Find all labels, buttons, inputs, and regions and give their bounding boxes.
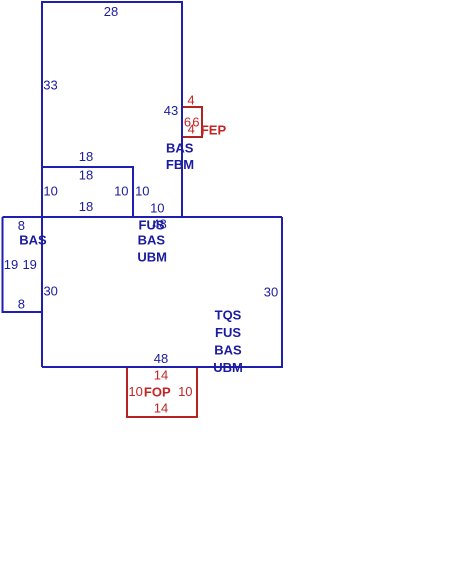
svg-text:48: 48 — [154, 351, 168, 366]
dimension 18 middle area bottom — [79, 199, 93, 214]
label FEP — [201, 122, 227, 137]
dimension 10 middle area left — [43, 184, 57, 199]
svg-text:FUS: FUS — [139, 217, 165, 232]
svg-text:UBM: UBM — [213, 360, 243, 375]
svg-text:43: 43 — [164, 103, 178, 118]
svg-text:10: 10 — [135, 184, 149, 199]
dimension 4 FEP bottom — [188, 122, 195, 137]
porch FEP outline (red rect right of main area) — [182, 107, 202, 137]
svg-text:8: 8 — [18, 218, 25, 233]
wall: top area outline (left 33, top 28, right 43) — [42, 2, 182, 217]
label BAS (bottom area stack) — [214, 343, 242, 358]
label UBM (bottom area stack) — [213, 360, 243, 375]
dimension 18 inside middle area top — [79, 168, 93, 183]
label UBM (middle stack) — [137, 249, 167, 264]
dimension 4 above FEP — [187, 92, 194, 107]
dimension 8 left area top — [18, 218, 25, 233]
svg-text:10: 10 — [43, 184, 57, 199]
svg-text:BAS: BAS — [166, 141, 194, 156]
svg-text:19: 19 — [22, 257, 36, 272]
wall: main horizontal interior line y=217 — [3, 216, 283, 218]
dimension 30 left of bottom area — [43, 284, 57, 299]
dimension 48 bottom edge — [154, 351, 168, 366]
svg-text:30: 30 — [43, 284, 57, 299]
svg-text:10: 10 — [128, 384, 142, 399]
label FOP — [144, 384, 171, 399]
label FBM (top area) — [166, 157, 194, 172]
dimension 48 overlapping FUS label — [152, 217, 166, 232]
svg-text:TQS: TQS — [215, 307, 242, 322]
dimension 19 left area inside — [22, 257, 36, 272]
svg-text:BAS: BAS — [19, 232, 47, 247]
svg-text:18: 18 — [79, 149, 93, 164]
dimension 33 (left edge) — [43, 77, 57, 92]
svg-text:BAS: BAS — [214, 343, 242, 358]
dimension 14 FOP top — [154, 368, 168, 383]
label BAS (left area) — [19, 232, 47, 247]
svg-text:19: 19 — [4, 257, 18, 272]
label FUS (middle stack) — [139, 217, 165, 232]
dimension 10 FOP left — [128, 384, 142, 399]
wall: bottom 48x30 area right and bottom edges — [42, 217, 282, 367]
svg-text:4: 4 — [187, 92, 194, 107]
svg-text:30: 30 — [264, 285, 278, 300]
svg-text:FOP: FOP — [144, 384, 171, 399]
wall: middle 18x10 area top and right edges — [42, 167, 133, 217]
dimension 8 left area bottom — [18, 297, 25, 312]
label TQS (bottom area stack) — [215, 307, 242, 322]
svg-text:8: 8 — [18, 297, 25, 312]
porch FOP outline (red rect at bottom) — [127, 367, 197, 417]
wall: shared left edge x=42 down to bottom — [41, 167, 43, 367]
dimension 6 FEP left — [184, 115, 191, 130]
dimension 43 (right edge) — [164, 103, 178, 118]
svg-text:10: 10 — [178, 384, 192, 399]
label FUS (bottom area stack) — [215, 325, 241, 340]
dimension 28 (top edge) — [104, 4, 118, 19]
label BAS (middle stack) — [138, 233, 166, 248]
dimension 10 middle area right inside — [114, 184, 128, 199]
svg-text:14: 14 — [154, 401, 168, 416]
svg-text:FEP: FEP — [201, 122, 227, 137]
svg-text:10: 10 — [150, 201, 164, 216]
dimension 30 bottom area right — [264, 285, 278, 300]
dimension 14 FOP bottom — [154, 401, 168, 416]
svg-text:10: 10 — [114, 184, 128, 199]
dimension 19 left area outside — [4, 257, 18, 272]
svg-text:FBM: FBM — [166, 157, 194, 172]
svg-text:FUS: FUS — [215, 325, 241, 340]
wall: left 8x19 area left and bottom edges — [3, 217, 43, 312]
dimension 6 FEP right — [192, 115, 199, 130]
svg-text:28: 28 — [104, 4, 118, 19]
dimension 18 above middle area — [79, 149, 93, 164]
label BAS (top area) — [166, 141, 194, 156]
svg-text:4: 4 — [188, 122, 195, 137]
svg-text:18: 18 — [79, 199, 93, 214]
dimension 10 step bottom — [150, 201, 164, 216]
svg-text:33: 33 — [43, 77, 57, 92]
svg-text:BAS: BAS — [138, 233, 166, 248]
svg-text:14: 14 — [154, 368, 168, 383]
svg-text:18: 18 — [79, 168, 93, 183]
dimension 10 FOP right — [178, 384, 192, 399]
svg-text:UBM: UBM — [137, 249, 167, 264]
dimension 10 right of middle area — [135, 184, 149, 199]
